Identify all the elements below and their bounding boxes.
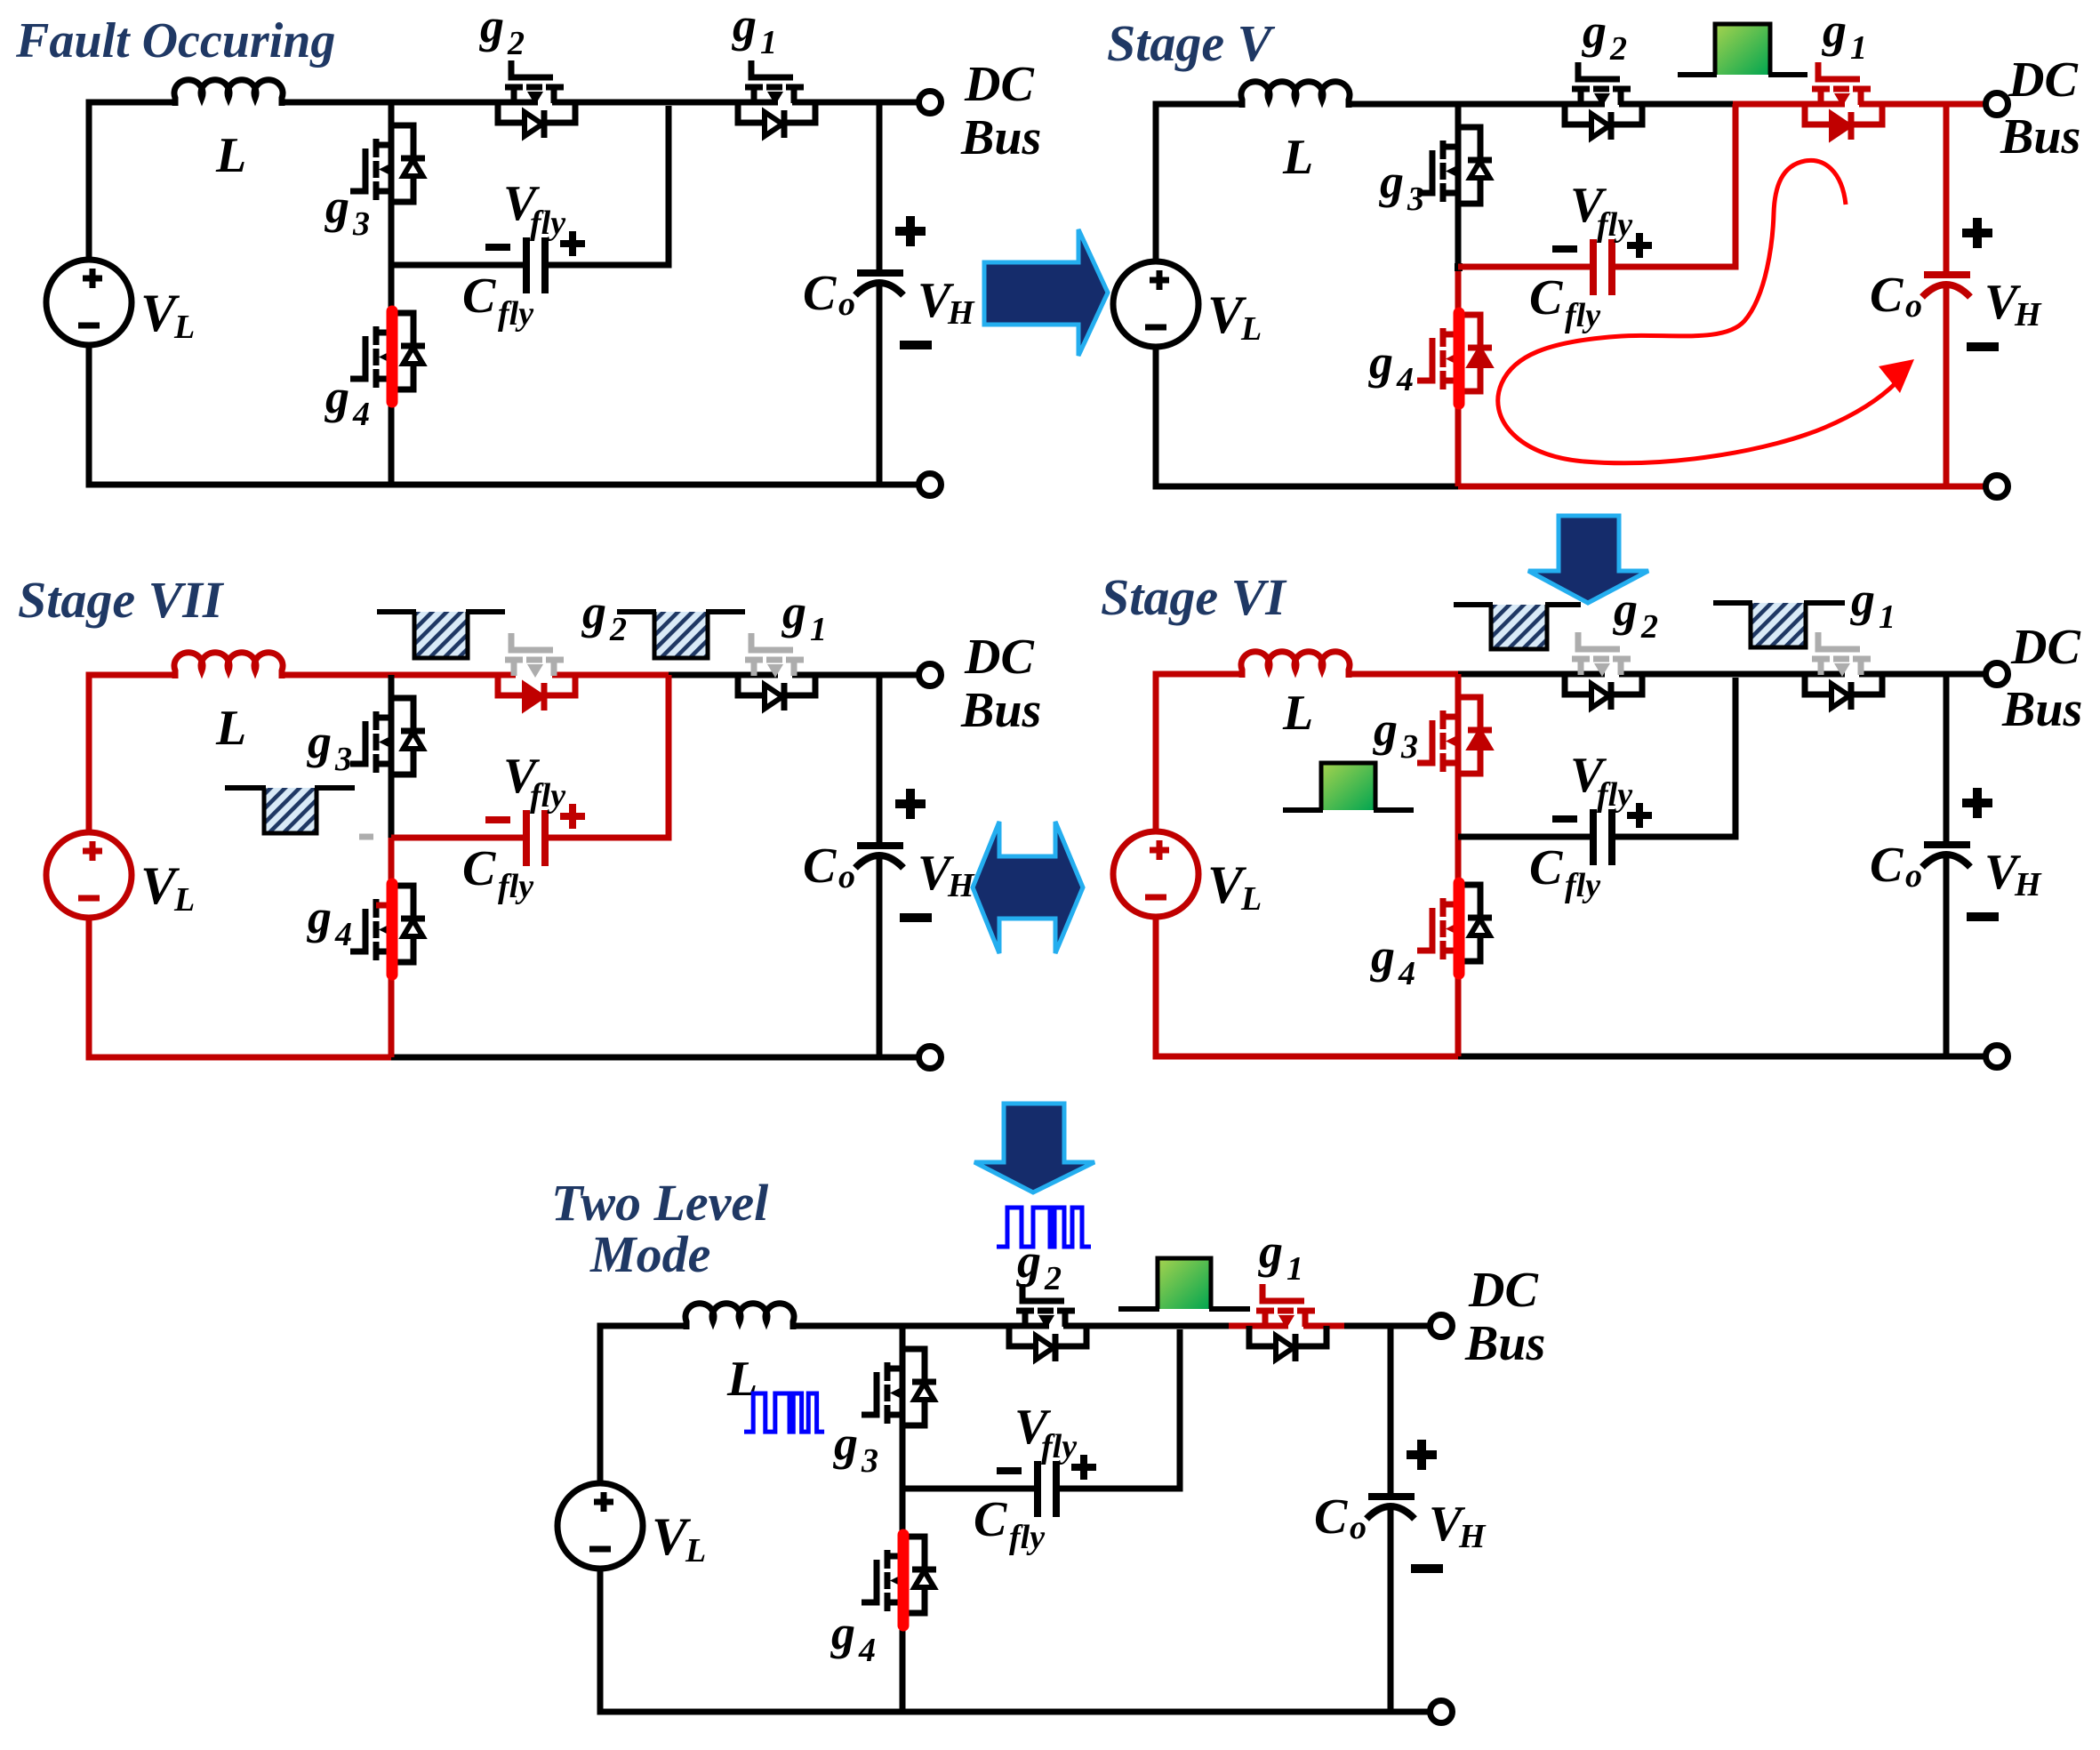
C2 junction dot mid node: [1455, 263, 1463, 271]
svg-text:3: 3: [1407, 181, 1424, 218]
C5 VH plus sign: [1407, 1440, 1437, 1470]
svg-text:g: g: [1613, 582, 1638, 636]
svg-text:L: L: [1282, 686, 1313, 741]
C3 wire: inductor to g2 (active): [282, 672, 516, 678]
C4 wire: Cfly to junction: [1615, 678, 1735, 837]
C4 wire: bottom rail right: [1458, 1054, 1986, 1060]
C1 wire: g1 to DC bus: [792, 100, 919, 106]
capacitor Cfly (C5): [1038, 1461, 1056, 1517]
C4 wire: source bottom-left rail (active): [1156, 917, 1461, 1056]
gate pulse g3 off (C3): [225, 788, 355, 833]
body diode of g4 (C3): [391, 886, 425, 962]
svg-text:3: 3: [352, 205, 370, 243]
svg-text:L: L: [173, 881, 195, 919]
svg-text:Fault Occuring: Fault Occuring: [15, 13, 335, 68]
C4 wire: g2 to g1: [1619, 671, 1845, 678]
C5 wire: g2 to g1: [1063, 1323, 1229, 1329]
svg-text:Stage VI: Stage VI: [1101, 568, 1287, 626]
C1 wire: output branch lower: [877, 281, 883, 485]
C1 wire: Cfly to junction: [548, 106, 669, 265]
capacitor Co (C4): [1922, 845, 1970, 867]
svg-text:DC: DC: [964, 630, 1034, 685]
C5 wire: output branch lower: [1388, 1505, 1394, 1712]
C3 wire: output branch lower: [877, 854, 883, 1057]
svg-text:g: g: [1373, 702, 1398, 756]
svg-text:fly: fly: [498, 295, 533, 333]
svg-text:1: 1: [760, 24, 777, 61]
svg-text:H: H: [1458, 1518, 1487, 1555]
svg-text:g: g: [833, 1417, 858, 1470]
body diode of g4 (C4): [1458, 885, 1492, 961]
fault short bar on g4 (C5): [898, 1535, 910, 1626]
C3 Cfly minus sign: [485, 816, 510, 823]
svg-text:L: L: [173, 309, 195, 346]
DC bus terminal top (C3): [919, 664, 942, 686]
svg-text:H: H: [2014, 866, 2042, 903]
DC bus terminal top (C5): [1431, 1315, 1453, 1337]
DC bus terminal top (C1): [919, 92, 942, 114]
DC bus terminal bottom (C4): [1986, 1046, 2008, 1068]
transistor g1 (C4) (MOSFET symbol): [1812, 632, 1871, 677]
svg-text:2: 2: [507, 25, 525, 62]
svg-text:Bus: Bus: [2000, 109, 2080, 165]
body diode of g4 (C5): [902, 1537, 936, 1613]
body diode of g1 (C2): [1805, 104, 1882, 140]
C2 wire: mid node to Cfly (active): [1458, 264, 1591, 270]
transistor g2 (C4) (MOSFET symbol): [1572, 632, 1631, 677]
svg-text:C: C: [803, 266, 837, 321]
svg-text:Stage V: Stage V: [1107, 14, 1276, 72]
svg-text:fly: fly: [1565, 867, 1600, 904]
C4 VH minus sign: [1967, 912, 1999, 921]
C2 wire: source top-left rail: [1156, 104, 1242, 263]
svg-text:2: 2: [609, 611, 627, 648]
block arrow: Stage VI down to Two Level Mode: [974, 1104, 1094, 1192]
svg-text:DC: DC: [2008, 52, 2078, 108]
C2 wire: source bottom-left rail: [1156, 347, 1458, 486]
C5 wire: node vertical: [900, 1326, 906, 1712]
gate pulse g1 off (C4): [1713, 603, 1845, 647]
C2 Cfly plus sign: [1627, 233, 1652, 258]
svg-text:2: 2: [1609, 30, 1627, 68]
capacitor Cfly (C3): [526, 810, 545, 866]
body diode of g2 (C3): [498, 675, 575, 710]
C3 Cfly plus sign: [560, 804, 585, 829]
C3 gray minus at mid node: [359, 834, 373, 840]
voltage source VL (C3): [46, 832, 132, 918]
C5 wire: output branch upper: [1388, 1326, 1394, 1494]
C5 wire: source top-left rail: [600, 1326, 686, 1485]
svg-text:g: g: [479, 0, 504, 52]
svg-text:Bus: Bus: [2001, 682, 2082, 737]
svg-text:C: C: [1529, 270, 1563, 325]
C4 wire: g1 to DC bus: [1859, 671, 1986, 678]
svg-text:C: C: [1870, 838, 1904, 893]
svg-text:o: o: [838, 858, 855, 895]
transistor g3 (C2) (MOSFET symbol): [1417, 140, 1461, 202]
C4 wire: node vertical (active): [1455, 674, 1462, 1056]
voltage source VL (C4): [1113, 831, 1198, 917]
svg-text:o: o: [1905, 287, 1922, 325]
body diode of g2 (C4): [1565, 674, 1642, 710]
transistor g4 (C5) (MOSFET symbol): [862, 1550, 905, 1611]
svg-text:1: 1: [1286, 1250, 1303, 1288]
svg-text:H: H: [2014, 296, 2042, 333]
svg-text:4: 4: [352, 396, 370, 433]
C2 VH minus sign: [1967, 342, 1999, 351]
svg-text:g: g: [781, 585, 806, 638]
block arrow: Fault Occuring to Stage V: [984, 229, 1108, 356]
gate pulse g1 on (C5): [1118, 1258, 1250, 1309]
body diode of g1 (C4): [1805, 674, 1882, 710]
C5 wire: mid node to Cfly: [902, 1486, 1035, 1492]
C2 wire: junction to g1 (active): [1733, 101, 1845, 108]
DC bus terminal bottom (C5): [1431, 1701, 1453, 1723]
capacitor Cfly (C4): [1593, 809, 1612, 865]
transistor g1 (C2) (MOSFET symbol): [1812, 62, 1871, 107]
svg-text:3: 3: [1400, 728, 1418, 766]
svg-text:g: g: [307, 715, 332, 768]
transistor g4 (C4) (MOSFET symbol): [1417, 898, 1461, 959]
body diode of g3 (C1): [391, 125, 425, 202]
gate pulse g3 on (C4): [1283, 763, 1414, 810]
svg-text:Stage VII: Stage VII: [18, 571, 225, 629]
transistor g4 (C1) (MOSFET symbol): [350, 326, 394, 388]
inductor L (C4): [1241, 652, 1350, 678]
C2 wire: output branch lower (active): [1944, 283, 1950, 486]
svg-text:L: L: [215, 128, 246, 183]
capacitor Co (C2): [1922, 275, 1970, 297]
C1 VH minus sign: [900, 341, 932, 349]
svg-text:DC: DC: [2010, 620, 2080, 675]
C2 wire: Cfly to junction (active): [1615, 104, 1735, 267]
C4 wire: node to g2: [1458, 671, 1605, 678]
svg-text:Two Level: Two Level: [551, 1174, 769, 1232]
transistor g1 (C5) (MOSFET symbol): [1256, 1284, 1315, 1329]
svg-text:g: g: [1850, 573, 1875, 626]
C3 wire: source top-left rail (active): [89, 675, 175, 834]
transistor g2 (C5) (MOSFET symbol): [1016, 1284, 1075, 1329]
voltage source VL (C5): [557, 1483, 643, 1569]
capacitor Cfly (C2): [1593, 239, 1612, 295]
svg-text:DC: DC: [964, 57, 1034, 112]
C4 Cfly minus sign: [1552, 815, 1577, 823]
C3 wire: source bottom-left rail (active): [89, 918, 394, 1057]
C5 Cfly minus sign: [997, 1467, 1022, 1474]
C1 wire: output branch upper: [877, 102, 883, 270]
svg-text:fly: fly: [1597, 206, 1632, 244]
C3 wire: Cfly to junction (active): [548, 675, 669, 838]
svg-text:1: 1: [1850, 29, 1867, 67]
C2 wire: node vertical upper: [1455, 104, 1462, 267]
C1 Cfly minus sign: [485, 244, 510, 251]
C4 wire: output branch lower: [1944, 853, 1950, 1056]
svg-text:4: 4: [1398, 955, 1415, 992]
capacitor Cfly (C1): [526, 237, 545, 293]
svg-text:L: L: [1240, 880, 1262, 918]
gate pulse g2 off (C4): [1454, 605, 1581, 649]
transistor g2 (C2) (MOSFET symbol): [1572, 62, 1631, 107]
body diode of g2 (C5): [1009, 1326, 1086, 1361]
C4 wire: inductor to node (active): [1349, 671, 1461, 678]
C3 wire: mid node to Cfly (active): [391, 835, 524, 841]
voltage source VL (C2): [1113, 261, 1198, 347]
C2 wire: inductor to g2: [1349, 101, 1605, 108]
svg-text:fly: fly: [498, 868, 533, 905]
C5 wire: Cfly to junction: [1059, 1329, 1180, 1489]
block arrow: Stage VII to Stage VI (double headed): [973, 822, 1083, 953]
svg-text:2: 2: [1044, 1260, 1062, 1297]
transistor g3 (C3) (MOSFET symbol): [350, 711, 394, 773]
gate pulse g1 on (C2): [1678, 24, 1807, 75]
C3 VH minus sign: [900, 913, 932, 922]
C1 wire: source bottom rail: [89, 345, 919, 485]
svg-text:3: 3: [334, 741, 352, 778]
svg-text:g: g: [1370, 929, 1395, 983]
body diode of g2 (C2): [1565, 104, 1642, 140]
DC bus terminal bottom (C2): [1986, 476, 2008, 498]
transistor g2 (C1) (MOSFET symbol): [505, 60, 564, 105]
C3 VH plus sign: [895, 789, 926, 819]
svg-text:g: g: [307, 890, 332, 943]
svg-text:Bus: Bus: [960, 683, 1041, 738]
body diode of g4 (C1): [391, 313, 425, 389]
svg-text:fly: fly: [1009, 1519, 1045, 1556]
transistor g2 (C3) (MOSFET symbol): [505, 633, 564, 678]
C3 wire: g2 to junction (active): [552, 672, 669, 678]
C1 VH plus sign: [895, 216, 926, 246]
C5 VH minus sign: [1411, 1564, 1443, 1573]
svg-text:g: g: [1582, 4, 1607, 58]
capacitor Co (C1): [855, 273, 903, 295]
body diode of g2 (C1): [498, 102, 575, 138]
inductor L (C3): [174, 653, 283, 678]
C5 wire: source bottom rail: [600, 1569, 1431, 1712]
svg-text:g: g: [1379, 155, 1404, 208]
svg-text:g: g: [325, 370, 349, 423]
body diode of g3 (C5): [902, 1349, 936, 1425]
C1 wire: inductor to g2: [282, 100, 538, 106]
DC bus terminal top (C2): [1986, 93, 2008, 116]
svg-text:g: g: [325, 180, 349, 233]
C3 wire: node vertical lower (active): [389, 838, 395, 1057]
C4 wire: source top-left rail (active): [1156, 674, 1242, 833]
svg-text:g: g: [581, 585, 606, 638]
C4 Cfly plus sign: [1627, 803, 1652, 828]
inductor L (C1): [174, 80, 283, 106]
svg-text:g: g: [732, 0, 757, 52]
svg-text:1: 1: [1879, 598, 1896, 636]
body diode of g3 (C2): [1458, 127, 1492, 204]
fault short bar on g4 (C3): [387, 884, 398, 975]
C4 wire: output branch upper: [1944, 674, 1950, 842]
transistor g1 (C3) (MOSFET symbol): [745, 633, 804, 678]
svg-text:C: C: [1870, 268, 1904, 323]
svg-text:C: C: [1529, 840, 1563, 895]
svg-text:C: C: [462, 269, 496, 324]
svg-text:L: L: [1282, 130, 1313, 185]
fault short bar on g4 (C4): [1454, 883, 1465, 974]
C1 wire: g2 to g1: [552, 100, 778, 106]
C1 Cfly plus sign: [560, 231, 585, 256]
body diode of g1 (C3): [738, 675, 815, 710]
C2 wire: output branch upper (active): [1944, 104, 1950, 272]
transistor g3 (C5) (MOSFET symbol): [862, 1362, 905, 1424]
svg-text:Bus: Bus: [960, 110, 1041, 165]
fault short bar on g4 (C2): [1454, 313, 1465, 404]
svg-text:H: H: [947, 294, 975, 332]
svg-text:o: o: [1905, 857, 1922, 895]
svg-text:C: C: [803, 839, 837, 894]
svg-text:C: C: [462, 841, 496, 896]
svg-text:g: g: [830, 1606, 855, 1659]
C2 current loop arrow: [1498, 160, 1896, 462]
svg-text:g: g: [1822, 4, 1847, 57]
svg-text:o: o: [1350, 1509, 1367, 1546]
svg-text:Bus: Bus: [1464, 1316, 1545, 1371]
svg-text:o: o: [838, 285, 855, 323]
svg-text:4: 4: [334, 916, 352, 953]
transistor g3 (C4) (MOSFET symbol): [1417, 710, 1461, 772]
transistor g4 (C3) (MOSFET symbol): [350, 899, 394, 960]
C1 wire: source top-left rail: [89, 102, 175, 261]
PWM waveform for g3 (C5): [744, 1393, 824, 1432]
svg-text:fly: fly: [1041, 1428, 1077, 1465]
fault short bar on g4 (C1): [387, 311, 398, 402]
C3 wire: junction to g1: [669, 672, 778, 678]
C2 VH plus sign: [1962, 218, 1992, 248]
body diode of g3 (C4): [1458, 697, 1492, 774]
gate pulse g2 off (C3): [377, 612, 505, 658]
C2 Cfly minus sign: [1552, 245, 1577, 253]
svg-text:L: L: [685, 1532, 706, 1569]
C3 wire: output branch upper: [877, 675, 883, 843]
transistor g3 (C1) (MOSFET symbol): [350, 139, 394, 200]
C5 wire: g1 segment (active): [1229, 1323, 1288, 1329]
svg-text:fly: fly: [530, 205, 565, 242]
svg-text:g: g: [1368, 335, 1393, 389]
C2 wire: bottom rail active: [1458, 484, 1986, 490]
svg-text:C: C: [1314, 1489, 1348, 1545]
C5 wire: inductor to g2: [793, 1323, 1049, 1329]
block arrow: Stage V down to Stage VI: [1528, 516, 1648, 603]
capacitor Co (C3): [855, 846, 903, 868]
body diode of g1 (C5): [1249, 1326, 1327, 1361]
svg-text:g: g: [1258, 1224, 1283, 1278]
svg-text:Mode: Mode: [589, 1225, 710, 1283]
svg-text:DC: DC: [1468, 1263, 1538, 1318]
PWM waveform for g2 (C5): [997, 1208, 1091, 1247]
C1 wire: switching node vertical: [389, 102, 395, 485]
C2 wire: g2 to junction: [1619, 101, 1733, 108]
svg-text:4: 4: [858, 1632, 876, 1669]
C5 wire: g1 segment right (active): [1303, 1323, 1344, 1329]
svg-text:fly: fly: [530, 777, 565, 815]
body diode of g3 (C3): [391, 698, 425, 775]
transistor g4 (C2) (MOSFET symbol): [1417, 328, 1461, 389]
DC bus terminal bottom (C3): [919, 1047, 942, 1069]
svg-text:C: C: [974, 1492, 1007, 1547]
C3 wire: bottom rail right: [391, 1055, 919, 1061]
voltage source VL (C1): [46, 260, 132, 345]
svg-text:2: 2: [1640, 608, 1658, 646]
svg-text:1: 1: [810, 611, 827, 648]
C3 wire: g1 to DC bus: [792, 672, 919, 678]
DC bus terminal top (C4): [1986, 663, 2008, 686]
body diode of g4 (C2): [1458, 315, 1492, 391]
C2 wire: g1 to DC bus (active): [1859, 101, 1986, 108]
svg-text:4: 4: [1396, 361, 1414, 398]
C4 wire: mid node to Cfly: [1458, 834, 1591, 840]
svg-text:L: L: [215, 701, 246, 756]
body diode of g1 (C1): [738, 102, 815, 138]
C4 VH plus sign: [1962, 788, 1992, 818]
svg-text:fly: fly: [1565, 297, 1600, 334]
inductor L (C2): [1241, 82, 1350, 108]
svg-text:3: 3: [861, 1442, 878, 1480]
C2 wire: node vertical lower (active): [1455, 267, 1462, 486]
C5 wire: g1 to DC bus: [1344, 1323, 1431, 1329]
capacitor Co (C5): [1367, 1497, 1415, 1519]
transistor g1 (C1) (MOSFET symbol): [745, 60, 804, 105]
C1 wire: mid node to Cfly: [391, 262, 524, 269]
gate pulse g1 off (C3): [617, 612, 745, 658]
C5 Cfly plus sign: [1071, 1455, 1096, 1480]
C3 wire: node vertical upper: [389, 675, 395, 838]
svg-text:L: L: [1240, 310, 1262, 348]
svg-text:fly: fly: [1597, 776, 1632, 814]
DC bus terminal bottom (C1): [919, 474, 942, 496]
inductor L (C5): [685, 1304, 794, 1329]
